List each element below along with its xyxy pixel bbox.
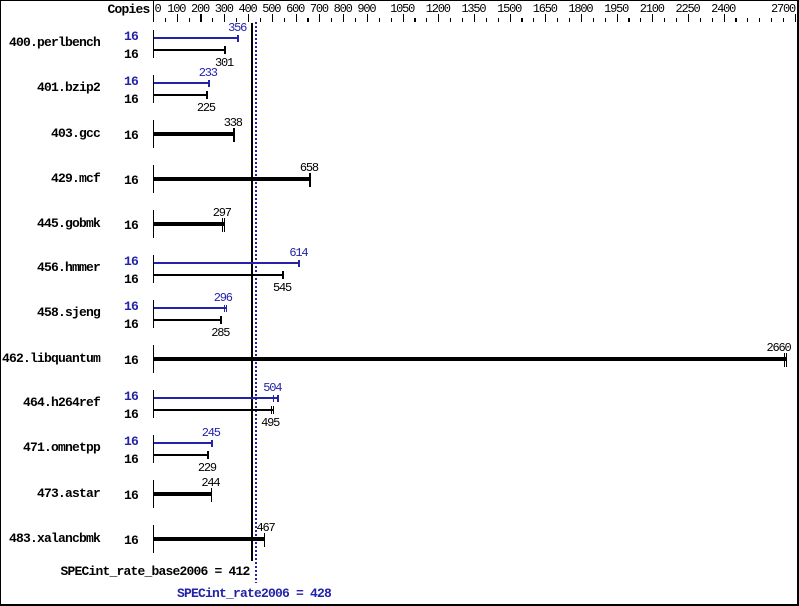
copies label 456.hmmer peak bbox=[124, 255, 138, 268]
axis short tick 2150 bbox=[664, 18, 665, 22]
axis short tick 2650 bbox=[783, 18, 784, 22]
axis short tick 950 bbox=[379, 18, 380, 22]
bar 403.gcc base (338) bbox=[154, 132, 236, 136]
group start whisker 471.omnetpp bbox=[153, 435, 154, 463]
bar 401.bzip2 peak (233) bbox=[154, 82, 210, 84]
end tick 400.perlbench base run1 bbox=[224, 46, 226, 54]
end tick 403.gcc run1 bbox=[233, 128, 235, 142]
bar 445.gobmk base (297) bbox=[154, 222, 226, 226]
axis short tick 1100 bbox=[414, 18, 415, 22]
end tick 464.h264ref base run1 bbox=[271, 406, 272, 414]
copies label 445.gobmk bbox=[124, 219, 138, 232]
reference line peak 428 (dotted) bbox=[255, 22, 257, 583]
value label 301 base bbox=[215, 57, 233, 69]
axis label 2250 bbox=[676, 3, 700, 15]
value label 545 base bbox=[273, 282, 291, 294]
axis label 100 bbox=[167, 3, 185, 15]
end tick 462.libquantum run2 bbox=[786, 353, 787, 367]
bar 483.xalancbmk base (467) bbox=[154, 537, 266, 541]
axis short tick 1700 bbox=[557, 18, 558, 22]
axis short tick 1900 bbox=[605, 18, 606, 22]
axis label 1650 bbox=[533, 3, 557, 15]
axis label 500 bbox=[262, 3, 280, 15]
axis label 1950 bbox=[604, 3, 628, 15]
copies label 462.libquantum bbox=[124, 354, 138, 367]
axis long tick 600 bbox=[296, 14, 297, 22]
copies label 429.mcf bbox=[124, 174, 138, 187]
value label 245 peak bbox=[202, 427, 220, 439]
axis long tick 2100 bbox=[652, 14, 653, 22]
value label 285 base bbox=[211, 327, 229, 339]
end tick 445.gobmk run1 bbox=[222, 218, 223, 232]
group start whisker 445.gobmk bbox=[153, 210, 154, 238]
axis label 200 bbox=[191, 3, 209, 15]
axis short tick 350 bbox=[236, 18, 237, 22]
axis short tick 2350 bbox=[712, 18, 713, 22]
group start whisker 403.gcc bbox=[153, 120, 154, 148]
copies label 401.bzip2 base bbox=[124, 93, 138, 106]
group start whisker 464.h264ref bbox=[153, 390, 154, 418]
axis long tick 200 bbox=[200, 14, 201, 22]
value label 504 peak bbox=[263, 382, 281, 394]
axis short tick 450 bbox=[260, 18, 261, 22]
axis label 300 bbox=[215, 3, 233, 15]
axis short tick 1300 bbox=[462, 18, 463, 22]
axis long tick 1050 bbox=[403, 14, 404, 22]
copies label 464.h264ref base bbox=[124, 408, 138, 421]
axis short tick 2000 bbox=[628, 18, 629, 22]
bar 462.libquantum base (2660) bbox=[154, 357, 788, 361]
value label 297 bbox=[213, 207, 231, 219]
axis short tick 1850 bbox=[593, 18, 594, 22]
copies label 400.perlbench peak bbox=[124, 30, 138, 43]
group start whisker 401.bzip2 bbox=[153, 75, 154, 103]
axis short tick 150 bbox=[189, 18, 190, 22]
bar 401.bzip2 base (225) bbox=[154, 94, 208, 96]
axis label 700 bbox=[310, 3, 328, 15]
copies label 458.sjeng base bbox=[124, 318, 138, 331]
copies label 456.hmmer base bbox=[124, 273, 138, 286]
axis label 1350 bbox=[461, 3, 485, 15]
value label 495 base bbox=[261, 417, 279, 429]
axis short tick 50 bbox=[165, 18, 166, 22]
benchmark label 445.gobmk bbox=[37, 217, 100, 230]
end tick 483.xalancbmk run1 bbox=[264, 533, 266, 547]
copies label 471.omnetpp peak bbox=[124, 435, 138, 448]
axis label 900 bbox=[357, 3, 375, 15]
copies label 464.h264ref peak bbox=[124, 390, 138, 403]
end tick 456.hmmer peak run1 bbox=[298, 260, 300, 268]
bar 464.h264ref peak (504) bbox=[154, 397, 279, 399]
copies label 403.gcc bbox=[124, 129, 138, 142]
value label 2660 bbox=[767, 342, 791, 354]
axis short tick 650 bbox=[307, 18, 308, 22]
end tick 401.bzip2 base run1 bbox=[206, 91, 208, 99]
chart frame border left bbox=[0, 0, 1, 606]
axis short tick 2500 bbox=[747, 18, 748, 22]
base metric label bbox=[61, 565, 250, 578]
axis short tick 1750 bbox=[569, 18, 570, 22]
chart frame border right bbox=[797, 0, 799, 606]
end tick 471.omnetpp base run1 bbox=[207, 451, 209, 459]
copies label 401.bzip2 peak bbox=[124, 75, 138, 88]
axis label 800 bbox=[334, 3, 352, 15]
axis label 1500 bbox=[497, 3, 521, 15]
group start whisker 429.mcf bbox=[153, 165, 154, 193]
axis label 2400 bbox=[711, 3, 735, 15]
end tick 473.astar run1 bbox=[211, 488, 213, 502]
axis short tick 1000 bbox=[391, 18, 392, 22]
peak metric label bbox=[177, 587, 331, 600]
axis short tick 2600 bbox=[771, 18, 772, 22]
axis short tick 1150 bbox=[426, 18, 427, 22]
axis long tick 1650 bbox=[545, 14, 546, 22]
bar 400.perlbench peak (356) bbox=[154, 37, 240, 39]
value label 296 peak bbox=[214, 292, 232, 304]
benchmark label 462.libquantum bbox=[2, 352, 100, 365]
axis long tick 500 bbox=[272, 14, 273, 22]
end tick 458.sjeng base run1 bbox=[220, 316, 222, 324]
axis label 1050 bbox=[390, 3, 414, 15]
bar 471.omnetpp base (229) bbox=[154, 454, 209, 456]
axis long tick 2700 bbox=[795, 14, 796, 22]
benchmark label 403.gcc bbox=[51, 127, 100, 140]
axis long tick 700 bbox=[319, 14, 320, 22]
value label 229 base bbox=[198, 462, 216, 474]
value label 225 base bbox=[197, 102, 215, 114]
copies label 458.sjeng peak bbox=[124, 300, 138, 313]
axis label 2100 bbox=[640, 3, 664, 15]
end tick 464.h264ref base run2 bbox=[273, 406, 274, 414]
axis short tick 2300 bbox=[700, 18, 701, 22]
axis short tick 1600 bbox=[533, 18, 534, 22]
benchmark label 429.mcf bbox=[51, 172, 100, 185]
end tick 464.h264ref peak run1 bbox=[273, 395, 275, 403]
axis short tick 2550 bbox=[759, 18, 760, 22]
end tick 462.libquantum run1 bbox=[784, 353, 785, 367]
value label 614 peak bbox=[289, 247, 307, 259]
axis label 1800 bbox=[568, 3, 592, 15]
axis short tick 2200 bbox=[676, 18, 677, 22]
bar 458.sjeng base (285) bbox=[154, 319, 223, 321]
benchmark label 401.bzip2 bbox=[37, 81, 100, 94]
chart frame border top bbox=[0, 0, 799, 1]
benchmark label 464.h264ref bbox=[23, 396, 100, 409]
value label 356 peak bbox=[228, 22, 246, 34]
benchmark label 483.xalancbmk bbox=[9, 532, 100, 545]
axis short tick 2450 bbox=[735, 18, 736, 22]
benchmark label 473.astar bbox=[37, 487, 100, 500]
axis long tick 400 bbox=[248, 14, 249, 22]
axis long tick 1500 bbox=[510, 14, 511, 22]
group start whisker 473.astar bbox=[153, 480, 154, 508]
axis short tick 1550 bbox=[521, 18, 522, 22]
bar 471.omnetpp peak (245) bbox=[154, 442, 213, 444]
axis long tick 100 bbox=[177, 14, 178, 22]
copies label 483.xalancbmk bbox=[124, 534, 138, 547]
axis long tick 1350 bbox=[474, 14, 475, 22]
copies label 400.perlbench base bbox=[124, 48, 138, 61]
axis long tick 2400 bbox=[724, 14, 725, 22]
axis long tick 1950 bbox=[617, 14, 618, 22]
bar 464.h264ref base (495) bbox=[154, 409, 275, 411]
axis label 600 bbox=[286, 3, 304, 15]
value label 338 bbox=[224, 117, 242, 129]
axis long tick 900 bbox=[367, 14, 368, 22]
axis short tick 1450 bbox=[498, 18, 499, 22]
end tick 458.sjeng peak run1 bbox=[224, 305, 226, 313]
axis short tick 1250 bbox=[450, 18, 451, 22]
bar 458.sjeng peak (296) bbox=[154, 307, 228, 309]
y-axis line bbox=[153, 1, 154, 22]
group start whisker 483.xalancbmk bbox=[153, 525, 154, 553]
end tick 456.hmmer base run1 bbox=[282, 271, 284, 279]
axis short tick 750 bbox=[331, 18, 332, 22]
axis short tick 850 bbox=[355, 18, 356, 22]
axis short tick 2050 bbox=[640, 18, 641, 22]
axis label 400 bbox=[239, 3, 257, 15]
axis long tick 1200 bbox=[438, 14, 439, 22]
benchmark label 458.sjeng bbox=[37, 306, 100, 319]
axis label 1200 bbox=[426, 3, 450, 15]
bar 456.hmmer peak (614) bbox=[154, 262, 301, 264]
end tick 429.mcf run1 bbox=[309, 173, 311, 187]
axis short tick 1400 bbox=[486, 18, 487, 22]
chart frame border bottom bbox=[0, 604, 799, 606]
value label 467 bbox=[257, 522, 275, 534]
reference line base 412 bbox=[251, 23, 253, 561]
bar 400.perlbench base (301) bbox=[154, 49, 227, 51]
axis label 0 bbox=[155, 3, 161, 15]
axis long tick 1800 bbox=[581, 14, 582, 22]
copies header bbox=[108, 3, 150, 16]
axis short tick 550 bbox=[284, 18, 285, 22]
end tick 401.bzip2 peak run1 bbox=[208, 80, 210, 88]
axis long tick 800 bbox=[343, 14, 344, 22]
value label 233 peak bbox=[199, 67, 217, 79]
bar 473.astar base (244) bbox=[154, 492, 213, 496]
axis long tick 2250 bbox=[688, 14, 689, 22]
benchmark label 456.hmmer bbox=[37, 261, 100, 274]
axis long tick 300 bbox=[224, 14, 225, 22]
bar 456.hmmer base (545) bbox=[154, 274, 285, 276]
benchmark label 471.omnetpp bbox=[23, 441, 100, 454]
group start whisker 458.sjeng bbox=[153, 300, 154, 328]
group start whisker 462.libquantum bbox=[153, 345, 154, 373]
group start whisker 400.perlbench bbox=[153, 30, 154, 58]
value label 244 bbox=[201, 477, 219, 489]
copies label 473.astar bbox=[124, 489, 138, 502]
end tick 445.gobmk run2 bbox=[224, 218, 225, 232]
end tick 458.sjeng peak run2 bbox=[226, 305, 228, 313]
bar 429.mcf base (658) bbox=[154, 177, 311, 181]
group start whisker 456.hmmer bbox=[153, 255, 154, 283]
end tick 471.omnetpp peak run1 bbox=[211, 440, 213, 448]
axis short tick 250 bbox=[212, 18, 213, 22]
axis label 2700 bbox=[771, 3, 795, 15]
value label 658 bbox=[300, 162, 318, 174]
end tick 464.h264ref peak run2 bbox=[277, 395, 279, 403]
benchmark label 400.perlbench bbox=[9, 36, 100, 49]
end tick 400.perlbench peak run1 bbox=[237, 35, 239, 43]
copies label 471.omnetpp base bbox=[124, 453, 138, 466]
